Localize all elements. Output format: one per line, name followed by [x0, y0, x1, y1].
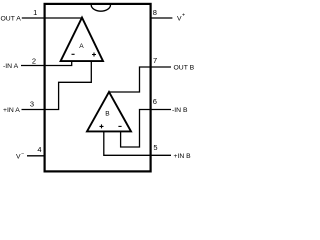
svg-text:1: 1: [33, 8, 37, 17]
svg-text:2: 2: [32, 57, 36, 66]
op-amp A non-inverting input mark +: [92, 53, 96, 57]
svg-text:-IN A: -IN A: [3, 63, 19, 70]
svg-text:8: 8: [153, 8, 157, 17]
wire pin2 -IN A to op-amp A inverting input: [21, 61, 72, 66]
svg-text:A: A: [79, 43, 84, 50]
wire pin7 OUT B to op-amp B output apex: [109, 67, 171, 92]
svg-text:5: 5: [153, 143, 157, 152]
svg-text:7: 7: [153, 56, 157, 65]
wire pin4 V- stub: [27, 155, 45, 157]
svg-text:OUT B: OUT B: [174, 65, 195, 72]
pin-1 index notch: [91, 5, 110, 11]
svg-text:+IN B: +IN B: [174, 153, 192, 160]
svg-text:−: −: [21, 152, 24, 158]
svg-text:B: B: [105, 111, 110, 118]
svg-text:OUT A: OUT A: [1, 16, 22, 23]
op-amp B triangle: [87, 92, 131, 131]
wire pin8 V+ stub: [151, 17, 173, 19]
wire pin1 OUT A to op-amp A output apex: [22, 17, 82, 19]
wire pin5 +IN B to op-amp B non-inverting input: [104, 131, 171, 155]
svg-text:6: 6: [153, 97, 157, 106]
svg-text:+IN A: +IN A: [3, 107, 20, 114]
op-amp A inverting input mark -: [72, 53, 75, 55]
svg-text:4: 4: [37, 145, 41, 154]
svg-text:+: +: [182, 13, 185, 19]
IC package body U1: [45, 4, 151, 172]
wire pin3 +IN A to op-amp A non-inverting input: [22, 61, 92, 110]
svg-text:-IN B: -IN B: [172, 107, 188, 114]
svg-text:3: 3: [30, 100, 34, 109]
op-amp B inverting input mark -: [118, 125, 121, 127]
wire pin6 -IN B to op-amp B inverting input: [121, 110, 171, 148]
op-amp B non-inverting input mark +: [100, 124, 104, 128]
op-amp A triangle: [61, 18, 103, 62]
